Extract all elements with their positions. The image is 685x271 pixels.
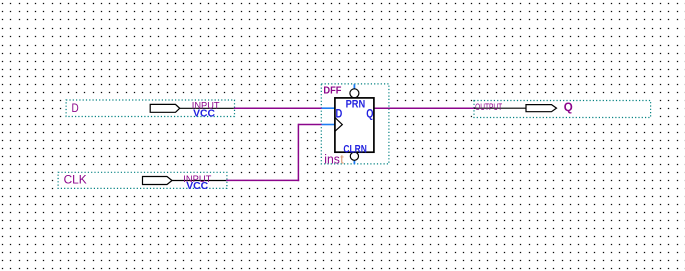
input pin D selection box (64, 98, 236, 118)
svg-text:DFF: DFF (323, 86, 341, 97)
wire: CLK net upper horizontal segment to DFF clock (298, 124, 321, 126)
svg-text:ins: ins (324, 153, 340, 167)
input pin CLK symbol pentagon (143, 177, 173, 185)
PRN pin stub (353, 84, 355, 89)
svg-text:Q: Q (366, 106, 373, 120)
input pin CLK selection box (56, 171, 228, 191)
PRN bubble (350, 89, 359, 98)
wire: CLK net vertical riser (297, 124, 299, 182)
svg-text:VCC: VCC (193, 108, 215, 120)
wire: DFF clock pin stub (322, 124, 335, 126)
flip-flop inst body (335, 98, 374, 152)
wire: net from DFF Q output to output pin Q (374, 107, 476, 109)
input pin CLK symbol line (172, 180, 226, 182)
output pin Q symbol pentagon (526, 105, 557, 112)
CLRN pin stub (353, 160, 355, 164)
svg-text:CLK: CLK (64, 175, 87, 187)
svg-text:Q: Q (564, 100, 573, 114)
wire route masks (hide grid dots under wires) (234, 107, 335, 111)
output pin Q symbol line (474, 107, 526, 109)
svg-text:t: t (340, 153, 344, 167)
svg-text:OUTPUT: OUTPUT (475, 102, 502, 112)
svg-text:VCC: VCC (186, 180, 208, 192)
svg-text:CLRN: CLRN (343, 143, 366, 155)
wire: net from input pin D to DFF D input (234, 107, 322, 109)
clock edge triangle (335, 118, 342, 132)
svg-text:PRN: PRN (346, 99, 366, 111)
CLRN bubble (350, 152, 358, 160)
input pin D symbol pentagon (150, 104, 180, 112)
wire: DFF D pin stub (322, 107, 335, 109)
flip-flop inst selection box (320, 82, 391, 166)
svg-text:D: D (72, 101, 79, 115)
input pin D symbol line (180, 107, 234, 109)
svg-text:D: D (336, 106, 343, 120)
wire: net from input pin CLK, horizontal segment (226, 179, 299, 181)
output pin Q selection box (472, 99, 654, 120)
